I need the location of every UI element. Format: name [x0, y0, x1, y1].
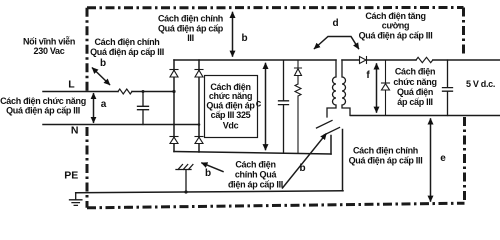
hazardous-zone dash-dot border top edge — [87, 6, 464, 9]
node chassis-to-PE junction — [184, 190, 187, 193]
hazardous-zone dash-dot border bottom edge — [87, 203, 465, 208]
svg-text:b: b — [241, 33, 247, 44]
svg-text:Cách điện tăngcườngQuá điện áp: Cách điện tăngcườngQuá điện áp cấp III — [359, 11, 433, 41]
svg-text:a: a — [101, 99, 107, 110]
diode D4 bridge bottom-right — [195, 137, 203, 144]
earth ground symbol — [70, 193, 82, 206]
resistor on L line — [118, 89, 132, 94]
capacitor X across L-N — [138, 92, 149, 125]
dimension arrow e (output to border) — [430, 119, 432, 201]
transformer T1 secondary winding — [342, 60, 350, 116]
svg-text:Cách điện chínhQuá điện áp cấp: Cách điện chínhQuá điện áp cấp III — [90, 37, 164, 57]
svg-text:b: b — [100, 58, 106, 69]
spark gap upper plate — [317, 121, 333, 129]
svg-text:PE: PE — [64, 170, 78, 182]
diode D2 bridge top-right — [195, 70, 203, 78]
wire L line — [43, 91, 174, 93]
dimension arrow c (DC bus) — [265, 64, 267, 150]
annotation arrow b to spark gap — [283, 134, 327, 188]
svg-text:Nối vĩnh viễn230 Vac: Nối vĩnh viễn230 Vac — [23, 37, 75, 57]
capacitor output filter — [443, 60, 453, 116]
dimension arrow d bent (to both windings) — [315, 37, 359, 49]
node N-to-bridge junction — [198, 123, 201, 126]
wire bridge right leg — [198, 60, 200, 152]
wire PE line — [76, 191, 343, 193]
svg-text:Cách điện chức năngQuá điện áp: Cách điện chức năngQuá điện áp cấp III — [0, 96, 86, 116]
wire DC+ top rail — [174, 59, 336, 61]
resistor of snubber chain — [295, 84, 301, 154]
capacitor bulk DC bus — [279, 61, 289, 153]
wire DC- hook up to spark gap — [330, 136, 332, 155]
hazardous-zone dash-dot border left edge lower — [86, 127, 89, 208]
resistor output series — [416, 57, 433, 62]
svg-text:Cách điện chínhQuá điện áp cấp: Cách điện chínhQuá điện áp cấp III — [349, 146, 423, 166]
svg-text:Cách điệnchức năngQuá điện ápc: Cách điệnchức năngQuá điện ápcấp III 325… — [206, 82, 255, 131]
diode D3 bridge bottom-left — [170, 137, 178, 144]
wire spark gap to PE riser — [342, 130, 344, 191]
hazardous-zone dash-dot border left edge upper — [86, 8, 89, 91]
dimension arrow f (across secondary) — [376, 64, 378, 112]
wire DC- bottom rail — [174, 152, 331, 155]
svg-text:c: c — [256, 99, 262, 110]
dimension arrow b vertical (top border to rail) — [232, 13, 234, 57]
diode output rectifier — [360, 57, 367, 64]
box around bridge insulation label — [205, 76, 258, 138]
svg-text:Cách điện chínhQuá điện áp cấp: Cách điện chínhQuá điện áp cấpIII — [158, 14, 224, 44]
hazardous-zone dash-dot border right edge lower — [463, 117, 466, 204]
wire secondary output return — [351, 115, 500, 117]
wire N line — [43, 124, 199, 126]
diode D1 bridge top-left — [170, 70, 178, 78]
wire secondary output plus — [342, 59, 500, 61]
svg-text:d: d — [332, 18, 338, 29]
svg-text:f: f — [366, 70, 370, 81]
wire bridge left leg — [173, 60, 175, 152]
svg-text:5 V d.c.: 5 V d.c. — [466, 79, 495, 89]
dimension arrow a (L to N) — [93, 94, 95, 122]
hazardous-zone dash-dot border right edge upper — [462, 8, 465, 58]
svg-text:e: e — [440, 153, 446, 164]
svg-text:Cách điệnchính Quáđiện áp cấp: Cách điệnchính Quáđiện áp cấp III — [228, 160, 283, 190]
svg-text:b: b — [205, 168, 211, 179]
transformer T1 primary winding — [327, 60, 336, 117]
dimension arrow b diagonal (border to L wire) — [93, 68, 110, 85]
svg-text:Cách điệnchức năngQuá điệnáp c: Cách điệnchức năngQuá điệnáp cấp III — [393, 67, 436, 108]
svg-text:b: b — [299, 163, 305, 174]
spark gap lower plate — [324, 128, 340, 136]
annotation arrow b to chassis area — [202, 163, 223, 172]
chassis ground symbol — [176, 165, 193, 193]
node L-to-bridge junction — [172, 90, 175, 93]
svg-text:N: N — [71, 125, 79, 137]
diode freewheel across output — [382, 60, 390, 116]
diode zener of snubber chain — [295, 61, 302, 85]
svg-text:L: L — [68, 79, 75, 91]
node X-cap tap junction — [142, 90, 145, 93]
